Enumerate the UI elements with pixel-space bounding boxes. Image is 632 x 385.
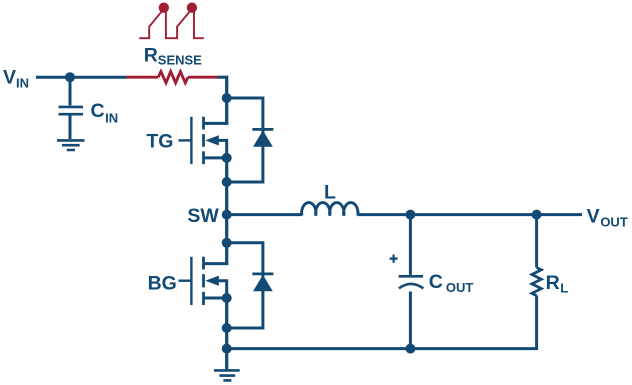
transistor BG channel segments bbox=[202, 257, 205, 305]
node ground rail junction bbox=[222, 344, 232, 354]
transistor TG body arrow bbox=[205, 135, 219, 145]
wire RL top lead bbox=[535, 215, 538, 268]
transistor BG drain lead bbox=[204, 262, 229, 265]
transistor BG gate plate bbox=[190, 257, 192, 305]
transistor TG channel segments bbox=[202, 117, 205, 164]
transistor BG body wire bbox=[217, 281, 227, 298]
node BG source junction bbox=[222, 293, 232, 303]
node TG drain junction bbox=[222, 93, 232, 103]
ground (input) bbox=[57, 140, 85, 150]
wire VIN to node bbox=[36, 76, 126, 79]
wire inductor to VOUT bbox=[358, 213, 582, 216]
diode D2 loop bbox=[227, 243, 263, 328]
transistor TG source lead bbox=[204, 156, 227, 159]
node D2 anode junction bbox=[222, 323, 232, 333]
transistor BG body arrow bbox=[205, 276, 219, 286]
wire red right lead bbox=[188, 76, 219, 79]
diode D1 loop bbox=[227, 98, 263, 182]
node SW junction bbox=[222, 210, 232, 220]
capacitor COUT curved plate bbox=[399, 284, 424, 289]
node VOUT junction bbox=[532, 210, 542, 220]
wire corner to TG drain bbox=[218, 77, 227, 125]
transistor TG body wire bbox=[217, 140, 227, 158]
resistor RL bbox=[532, 268, 541, 296]
node TG source junction bbox=[222, 153, 232, 163]
diode D2 triangle bbox=[253, 275, 273, 291]
transistor TG gate wire bbox=[179, 139, 192, 141]
transistor BG source lead bbox=[204, 297, 227, 300]
capacitor COUT plate bbox=[399, 275, 424, 278]
wire COUT top lead bbox=[409, 215, 412, 275]
resistor RSENSE bbox=[158, 72, 188, 83]
node BG drain junction bbox=[222, 238, 232, 248]
diode D1 triangle bbox=[253, 130, 273, 146]
label plus polarity bbox=[390, 255, 398, 263]
ground (power) bbox=[214, 370, 240, 380]
diode D1 cathode bar bbox=[252, 128, 273, 131]
node COUT top junction bbox=[405, 210, 415, 220]
wire SW to inductor bbox=[227, 213, 302, 216]
wire CIN top lead bbox=[69, 77, 72, 105]
current-sense pulse icon bbox=[139, 10, 204, 39]
transistor TG gate plate bbox=[190, 117, 192, 164]
wire COUT bottom lead bbox=[409, 292, 412, 349]
svg-text:L: L bbox=[324, 182, 336, 204]
node VIN junction bbox=[65, 72, 75, 82]
wire bottom rail bbox=[227, 296, 537, 349]
svg-text:BG: BG bbox=[148, 272, 177, 294]
transistor TG drain lead bbox=[204, 122, 229, 125]
svg-text:TG: TG bbox=[146, 131, 173, 153]
wire CIN bottom lead bbox=[69, 116, 72, 140]
wire rail BG source to ground bbox=[225, 298, 228, 369]
inductor L bbox=[302, 203, 358, 216]
capacitor CIN bbox=[59, 107, 84, 114]
transistor BG gate wire bbox=[179, 280, 192, 282]
diode D2 cathode bar bbox=[252, 272, 273, 275]
wire rail TG source to BG drain bbox=[225, 158, 228, 265]
wire red left lead bbox=[126, 76, 158, 79]
node D1 anode junction bbox=[222, 177, 232, 187]
node COUT bottom junction bbox=[405, 344, 415, 354]
svg-text:SW: SW bbox=[187, 205, 219, 227]
